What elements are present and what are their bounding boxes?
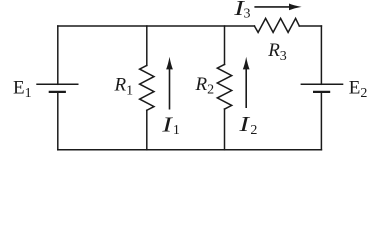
svg-text:R3: R3	[267, 40, 287, 64]
svg-text:2: 2	[250, 123, 257, 138]
svg-text:R2: R2	[195, 74, 215, 98]
svg-text:E2: E2	[349, 77, 368, 101]
svg-text:1: 1	[173, 123, 180, 138]
svg-text:I: I	[161, 113, 174, 136]
svg-text:I: I	[238, 113, 251, 136]
svg-text:R1: R1	[114, 75, 134, 99]
svg-text:3: 3	[244, 7, 251, 22]
svg-text:E1: E1	[13, 77, 32, 101]
